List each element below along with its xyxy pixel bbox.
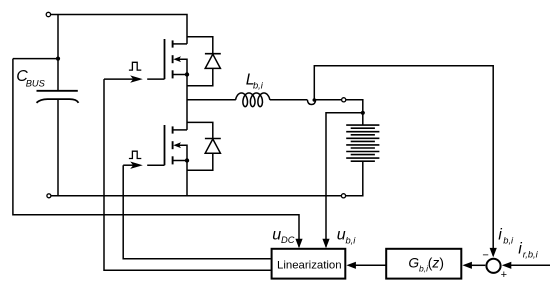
svg-text:BUS: BUS xyxy=(26,78,46,88)
svg-text:(z): (z) xyxy=(428,256,444,271)
svg-text:G: G xyxy=(408,256,419,271)
svg-text:DC: DC xyxy=(281,235,295,245)
svg-text:i: i xyxy=(518,241,522,258)
svg-text:b,i: b,i xyxy=(346,236,357,246)
svg-text:r,b,i: r,b,i xyxy=(523,250,539,260)
svg-text:+: + xyxy=(501,269,507,281)
svg-text:Linearization: Linearization xyxy=(277,259,342,271)
svg-text:u: u xyxy=(272,226,281,243)
svg-text:b,i: b,i xyxy=(503,236,514,246)
svg-text:b,i: b,i xyxy=(253,81,264,91)
svg-text:i: i xyxy=(498,227,502,244)
svg-text:−: − xyxy=(482,250,488,262)
svg-text:u: u xyxy=(337,226,346,243)
